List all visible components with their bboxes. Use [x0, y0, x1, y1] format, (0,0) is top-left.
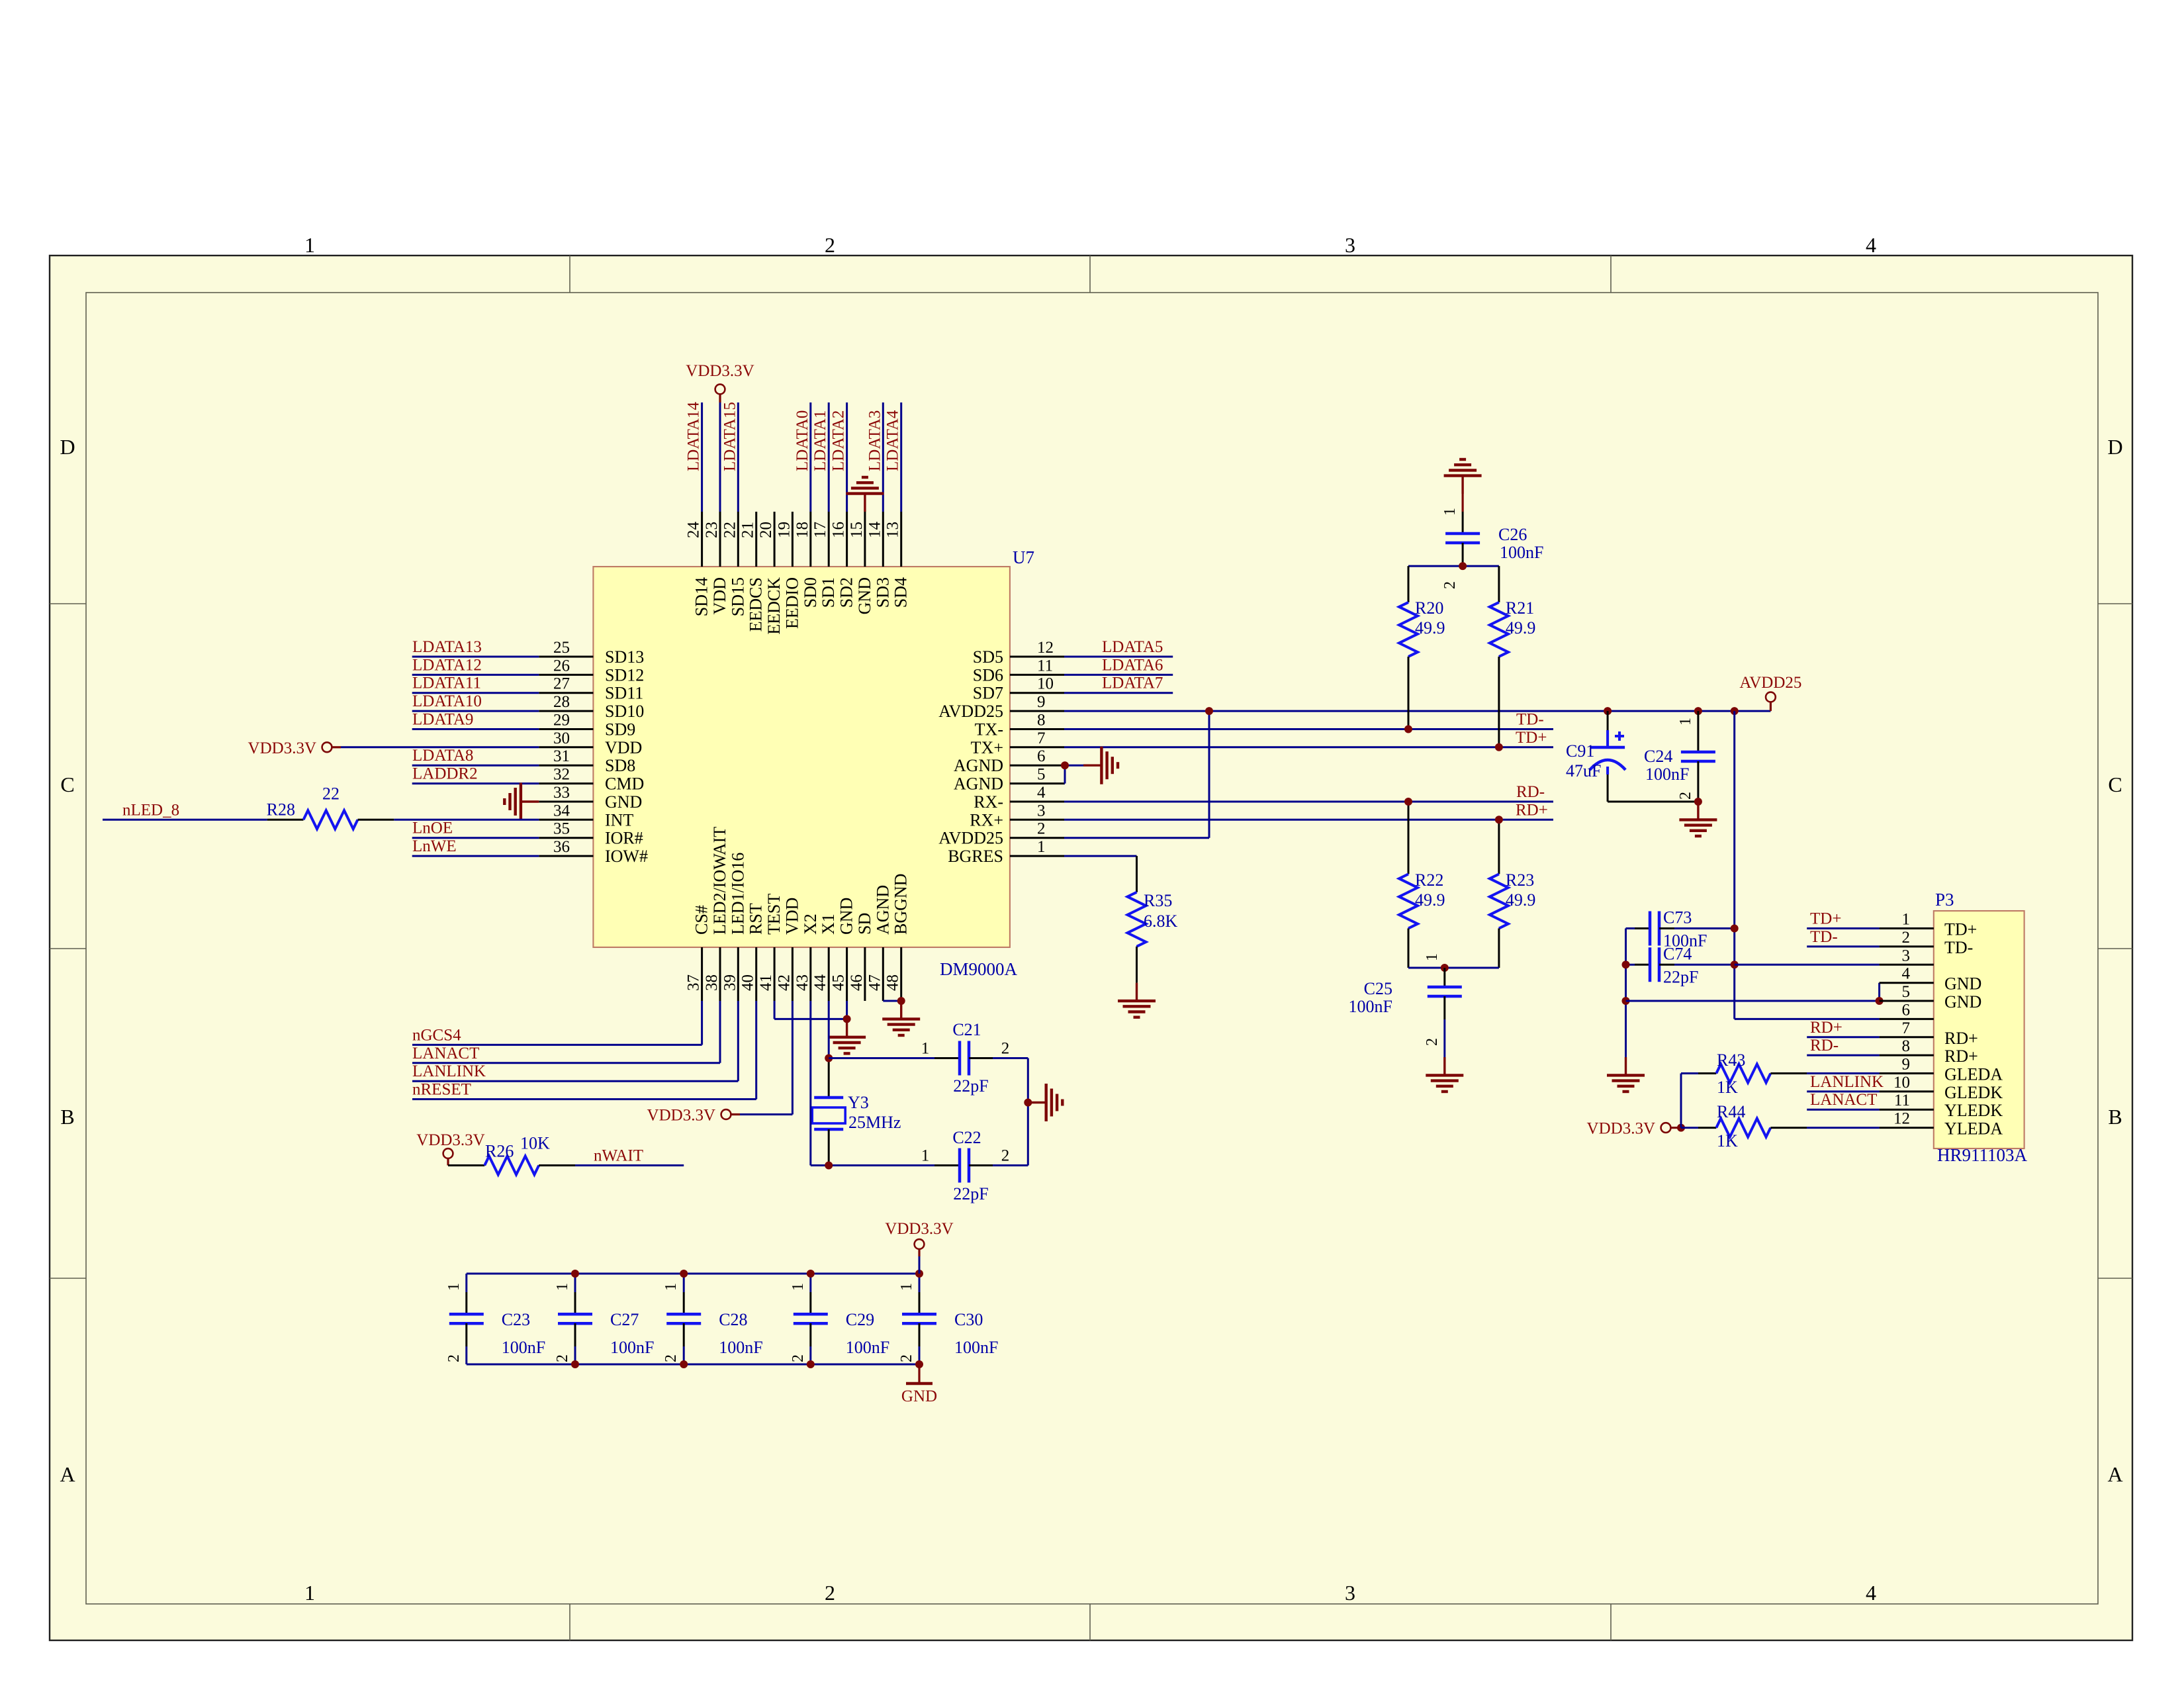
svg-text:R20: R20: [1415, 598, 1443, 618]
net label RD+: [1516, 801, 1548, 819]
power port VDD3.3V at R44: [1587, 1120, 1681, 1138]
P3 pins 1-12: [1880, 911, 2003, 1139]
svg-text:5: 5: [1037, 766, 1046, 784]
svg-text:RD-: RD-: [1516, 783, 1545, 801]
svg-text:100nF: 100nF: [846, 1338, 889, 1357]
svg-text:27: 27: [553, 675, 570, 693]
junction X1/C21: [825, 1055, 833, 1062]
pin number 1 of C30: [898, 1283, 915, 1291]
junction C26 rail: [1459, 562, 1467, 570]
U7 right pins 12-1: [938, 639, 1064, 866]
ground right of C21/C22: [1028, 1084, 1062, 1121]
junction ground tap: [1024, 1099, 1032, 1107]
svg-text:1: 1: [304, 233, 315, 257]
wire LANLINK: [412, 1001, 738, 1081]
svg-text:1: 1: [790, 1283, 807, 1291]
power port VDD3.3V at pin 30: [248, 739, 341, 757]
designator R43: [1717, 1051, 1745, 1070]
designator R35: [1144, 891, 1172, 910]
svg-text:LDATA1: LDATA1: [811, 410, 829, 471]
ground at pin 45: [828, 1019, 866, 1053]
junction pin45 tie: [843, 1015, 851, 1023]
designator R22: [1415, 870, 1443, 890]
svg-text:LDATA0: LDATA0: [794, 410, 811, 471]
wire LnWE: [412, 855, 539, 857]
svg-text:2: 2: [898, 1354, 915, 1362]
svg-text:C28: C28: [719, 1310, 747, 1329]
svg-text:23: 23: [703, 522, 721, 538]
crystal Y3: [812, 1098, 845, 1166]
svg-text:LED2/IOWAIT: LED2/IOWAIT: [710, 827, 729, 935]
wire C21/C22 right vertical: [1027, 1058, 1029, 1166]
designator C24: [1644, 747, 1672, 766]
ground below C73/C74: [1607, 1057, 1645, 1092]
wire RD- (P3): [1807, 1055, 1879, 1056]
svg-text:32: 32: [553, 766, 570, 784]
svg-text:34: 34: [553, 802, 570, 820]
svg-text:24: 24: [685, 522, 703, 539]
net label LDATA12: [412, 656, 482, 674]
svg-text:100nF: 100nF: [610, 1338, 654, 1357]
pin number 2 of C29: [790, 1354, 807, 1362]
capacitor C30: [902, 1274, 936, 1364]
svg-text:21: 21: [739, 522, 757, 538]
svg-text:11: 11: [1037, 657, 1053, 675]
net label LnWE: [412, 837, 457, 855]
pin number 1 of C27: [554, 1283, 571, 1291]
svg-text:B: B: [60, 1105, 74, 1129]
svg-text:R35: R35: [1144, 891, 1172, 910]
resistor R21: [1490, 566, 1508, 747]
svg-text:C: C: [60, 773, 74, 796]
value 100nF (C73): [1663, 931, 1707, 951]
svg-text:RD+: RD+: [1810, 1019, 1843, 1037]
svg-text:100nF: 100nF: [719, 1338, 762, 1357]
svg-text:DM9000A: DM9000A: [940, 959, 1018, 979]
net label LDATA3: [866, 410, 884, 471]
svg-text:SD9: SD9: [605, 720, 635, 739]
power port VDD3.3V at pin 23: [686, 362, 754, 402]
svg-text:17: 17: [811, 522, 829, 538]
ground below C24: [1679, 802, 1717, 836]
svg-text:LDATA13: LDATA13: [412, 638, 482, 656]
junction C74 left: [1622, 961, 1630, 968]
svg-text:VDD: VDD: [710, 577, 729, 614]
svg-text:C30: C30: [954, 1310, 983, 1329]
svg-text:4: 4: [1902, 965, 1911, 983]
value 49.9 (R20): [1415, 618, 1445, 637]
net label TD+: [1516, 729, 1547, 747]
svg-text:4: 4: [1866, 233, 1876, 257]
ground at pins 47/48: [882, 1001, 920, 1035]
junction pin48: [897, 997, 905, 1005]
junction C24/AVDD25: [1694, 707, 1702, 715]
net label LDATA5: [1102, 638, 1163, 656]
capacitor C73: [1626, 912, 1735, 946]
junction C29 bottom: [807, 1360, 815, 1368]
wire RD-: [1064, 801, 1553, 803]
wire AGND/BGGND tie: [883, 1000, 901, 1002]
svg-text:nRESET: nRESET: [412, 1081, 471, 1099]
capacitor C29: [794, 1274, 828, 1364]
svg-text:8: 8: [1037, 712, 1046, 729]
power port GND at decoupling bank: [901, 1364, 937, 1405]
wire TD+ (P3): [1807, 927, 1879, 929]
svg-text:11: 11: [1894, 1092, 1910, 1109]
designator C29: [846, 1310, 874, 1329]
svg-text:35: 35: [553, 820, 570, 838]
wire LDATA14 (top): [701, 402, 703, 512]
svg-text:U7: U7: [1013, 547, 1034, 567]
svg-text:7: 7: [1037, 729, 1046, 747]
wire LDATA0 (top): [809, 402, 811, 512]
svg-text:C24: C24: [1644, 747, 1672, 766]
svg-text:1: 1: [1441, 508, 1459, 516]
pin number 2 of C26: [1441, 581, 1459, 589]
svg-text:1: 1: [1677, 718, 1694, 726]
designator C73: [1663, 908, 1692, 927]
svg-text:2: 2: [662, 1354, 680, 1362]
svg-text:LDATA9: LDATA9: [412, 711, 473, 729]
svg-text:C29: C29: [846, 1310, 874, 1329]
pin number 2 of C27: [554, 1354, 571, 1362]
svg-text:1: 1: [554, 1283, 571, 1291]
svg-text:RX-: RX-: [974, 792, 1003, 812]
pin number 2 of C23: [445, 1354, 463, 1362]
svg-text:LDATA10: LDATA10: [412, 692, 482, 710]
value 100nF (C29): [846, 1338, 889, 1357]
svg-text:43: 43: [794, 974, 811, 991]
svg-text:47: 47: [866, 974, 884, 991]
net label nWAIT: [594, 1147, 643, 1165]
wire C91 to C24 bottom: [1608, 801, 1698, 803]
value 49.9 (R22): [1415, 890, 1445, 910]
wire P3 pin3 feed: [1735, 964, 1880, 966]
svg-text:2: 2: [1677, 792, 1694, 800]
pin number 2 of C21: [1001, 1040, 1010, 1058]
svg-text:22: 22: [322, 784, 340, 803]
svg-text:2: 2: [445, 1354, 463, 1362]
svg-text:TD+: TD+: [1810, 910, 1841, 928]
value 22: [322, 784, 340, 803]
svg-text:2: 2: [554, 1354, 571, 1362]
svg-text:RD-: RD-: [1810, 1037, 1839, 1055]
resistor R28: [267, 810, 394, 829]
designator C30: [954, 1310, 983, 1329]
svg-text:B: B: [2108, 1105, 2122, 1129]
wire nWAIT: [575, 1164, 684, 1166]
pin number 2 of C25: [1424, 1038, 1441, 1046]
svg-text:C23: C23: [502, 1310, 530, 1329]
svg-text:6: 6: [1902, 1001, 1911, 1019]
svg-text:100nF: 100nF: [1349, 997, 1392, 1016]
power port VDD3.3V at R26: [416, 1131, 484, 1166]
svg-text:4: 4: [1037, 784, 1046, 802]
svg-text:R43: R43: [1717, 1051, 1745, 1070]
svg-text:R26: R26: [485, 1142, 514, 1161]
wire R28 to INT pin 34: [394, 819, 539, 821]
part number DM9000A: [940, 959, 1018, 979]
svg-text:P3: P3: [1935, 890, 1954, 910]
wire decoupling bottom rail: [467, 1364, 919, 1366]
svg-text:46: 46: [848, 974, 866, 991]
value 1K (R43): [1717, 1078, 1738, 1097]
svg-text:100nF: 100nF: [1645, 765, 1689, 784]
svg-text:LDATA3: LDATA3: [866, 410, 884, 471]
svg-text:2: 2: [1001, 1147, 1010, 1165]
svg-text:2: 2: [825, 233, 835, 257]
designator R20: [1415, 598, 1443, 618]
designator R44: [1717, 1102, 1745, 1121]
net label RD- (P3): [1810, 1037, 1839, 1055]
svg-text:AGND: AGND: [954, 756, 1003, 775]
svg-text:GND: GND: [1944, 974, 1981, 994]
value 49.9 (R21): [1506, 618, 1536, 637]
wire VDD3.3V to pin 42: [740, 1001, 792, 1115]
svg-text:1: 1: [921, 1147, 930, 1165]
pin number 1 of C26: [1441, 508, 1459, 516]
svg-text:LADDR2: LADDR2: [412, 765, 478, 783]
svg-text:AGND: AGND: [873, 885, 892, 935]
ground above C26: [1444, 459, 1482, 494]
svg-text:26: 26: [553, 657, 570, 675]
pin number 2 of C24: [1677, 792, 1694, 800]
svg-text:SD2: SD2: [837, 577, 856, 608]
svg-text:IOW#: IOW#: [605, 847, 648, 866]
svg-text:LnWE: LnWE: [412, 837, 457, 855]
svg-text:12: 12: [1037, 639, 1054, 657]
designator R21: [1506, 598, 1534, 618]
svg-text:2: 2: [1424, 1038, 1441, 1046]
svg-text:3: 3: [1345, 1581, 1355, 1605]
svg-text:TX+: TX+: [971, 738, 1003, 757]
wire nLED_8: [103, 819, 267, 821]
svg-text:nLED_8: nLED_8: [122, 801, 179, 819]
svg-text:9: 9: [1037, 693, 1046, 711]
wire P3 GND row: [1626, 1000, 1880, 1002]
svg-text:IOR#: IOR#: [605, 829, 643, 848]
svg-text:SD4: SD4: [891, 577, 911, 608]
svg-text:1: 1: [1424, 953, 1441, 961]
svg-text:10: 10: [1037, 675, 1054, 693]
junction C29 top: [807, 1270, 815, 1278]
resistor R44: [1681, 1119, 1880, 1137]
svg-text:25MHz: 25MHz: [848, 1113, 901, 1132]
wire AVDD25 net: [1064, 711, 1770, 838]
svg-text:YLEDK: YLEDK: [1944, 1101, 2003, 1120]
value 6.8K: [1144, 912, 1178, 931]
value 47uF: [1566, 761, 1601, 780]
capacitor C27: [558, 1274, 592, 1364]
net label TD-: [1516, 711, 1544, 729]
wire LANLINK (P3): [1807, 1090, 1879, 1092]
wire LDATA4 (top): [900, 402, 902, 512]
svg-text:6: 6: [1037, 747, 1046, 765]
svg-text:3: 3: [1345, 233, 1355, 257]
svg-text:22: 22: [721, 522, 739, 538]
svg-text:LDATA12: LDATA12: [412, 656, 482, 674]
svg-text:C26: C26: [1498, 525, 1527, 544]
ground at pin 33: [504, 783, 539, 821]
svg-text:22pF: 22pF: [953, 1076, 988, 1096]
svg-text:GND: GND: [1944, 992, 1981, 1011]
wire P3 pin4 jog: [1878, 983, 1880, 1001]
net label nGCS4: [412, 1026, 461, 1044]
designator C74: [1663, 944, 1692, 963]
svg-text:LANLINK: LANLINK: [1810, 1073, 1884, 1091]
capacitor C91 polarized: [1590, 711, 1625, 802]
svg-text:GND: GND: [837, 898, 856, 935]
svg-text:C21: C21: [952, 1020, 981, 1039]
designator R28: [267, 800, 295, 819]
net label LDATA10: [412, 692, 482, 710]
junction C30 top: [915, 1270, 923, 1278]
svg-text:R44: R44: [1717, 1102, 1745, 1121]
net label LDATA15: [721, 402, 739, 471]
capacitor C26: [1445, 494, 1480, 566]
svg-text:LnOE: LnOE: [412, 820, 453, 837]
net label TD+ (P3): [1810, 910, 1841, 928]
wire LDATA5: [1064, 656, 1173, 658]
svg-text:VDD3.3V: VDD3.3V: [1587, 1120, 1655, 1138]
designator R23: [1506, 870, 1534, 890]
pin number 1 of C22: [921, 1147, 930, 1165]
net label RD+ (P3): [1810, 1019, 1843, 1037]
wire LDATA8: [412, 765, 539, 767]
svg-text:3: 3: [1037, 802, 1046, 820]
wire TD+: [1064, 746, 1553, 748]
wire AGND pins 5-6: [1064, 765, 1083, 783]
svg-text:C91: C91: [1566, 741, 1594, 761]
junction C25 rail: [1441, 964, 1449, 972]
svg-text:C25: C25: [1364, 979, 1392, 998]
svg-text:HR911103A: HR911103A: [1937, 1145, 2028, 1165]
resistor R43: [1681, 1064, 1880, 1083]
junction R21/TD+: [1495, 743, 1503, 751]
net label LANACT (P3): [1810, 1091, 1877, 1109]
capacitor C25: [1428, 968, 1462, 1057]
wire TD-: [1064, 728, 1553, 730]
wire LDATA9: [412, 728, 539, 730]
ground below C25: [1426, 1057, 1463, 1092]
svg-text:AVDD25: AVDD25: [1739, 674, 1801, 692]
connector P3 body HR911103A: [1934, 911, 2025, 1149]
svg-text:C: C: [2108, 773, 2122, 796]
svg-text:10K: 10K: [520, 1134, 550, 1153]
wire BGRES: [1064, 855, 1137, 857]
svg-text:10: 10: [1893, 1074, 1910, 1092]
svg-text:13: 13: [884, 522, 902, 538]
junction AVDD25/pin2 riser: [1205, 707, 1213, 715]
junction C73 right: [1731, 925, 1739, 933]
pin number 1 of C28: [662, 1283, 680, 1291]
svg-text:22pF: 22pF: [1663, 967, 1698, 986]
svg-text:1: 1: [662, 1283, 680, 1291]
svg-text:1: 1: [898, 1283, 915, 1291]
wire LDATA1 (top): [828, 402, 830, 512]
designator C21: [952, 1020, 981, 1039]
value 1K (R44): [1717, 1131, 1738, 1150]
svg-text:LDATA6: LDATA6: [1102, 656, 1163, 674]
svg-text:2: 2: [1902, 929, 1911, 947]
value 10K: [520, 1134, 550, 1153]
U7 top pins 24-13: [685, 512, 911, 635]
wire RD+ (P3): [1807, 1036, 1879, 1038]
value 100nF (C23): [502, 1338, 545, 1357]
power port AVDD25: [1739, 674, 1801, 711]
svg-text:A: A: [60, 1462, 75, 1486]
wire LADDR2: [412, 782, 539, 784]
svg-text:12: 12: [1893, 1110, 1910, 1128]
svg-text:29: 29: [553, 712, 570, 729]
svg-text:VDD3.3V: VDD3.3V: [248, 739, 316, 757]
wire R43 branch vertical: [1680, 1074, 1682, 1128]
designator C22: [952, 1128, 981, 1147]
svg-text:LANACT: LANACT: [1810, 1091, 1877, 1109]
value 25MHz: [848, 1113, 901, 1132]
svg-text:SD3: SD3: [873, 577, 892, 608]
wire rail R22 R23 bottoms: [1408, 967, 1499, 969]
svg-text:2: 2: [1441, 581, 1459, 589]
svg-text:VDD3.3V: VDD3.3V: [885, 1220, 953, 1238]
svg-text:R28: R28: [267, 800, 295, 819]
junction VDD3.3V/R43 branch: [1677, 1124, 1685, 1132]
net label LDATA4: [884, 410, 902, 471]
resistor R22: [1399, 802, 1418, 968]
value 100nF (C25): [1349, 997, 1392, 1016]
svg-text:GND: GND: [855, 577, 874, 614]
svg-text:SD6: SD6: [973, 665, 1003, 684]
svg-text:GLEDK: GLEDK: [1944, 1083, 2003, 1102]
svg-text:VDD3.3V: VDD3.3V: [647, 1107, 715, 1125]
wire TEST to GND tie: [774, 1001, 847, 1019]
svg-text:100nF: 100nF: [502, 1338, 545, 1357]
svg-text:1K: 1K: [1717, 1131, 1738, 1150]
wire LDATA15 (top): [737, 402, 739, 512]
svg-text:42: 42: [775, 974, 793, 991]
value 22pF (C74): [1663, 967, 1698, 986]
resistor R20: [1399, 566, 1418, 729]
svg-text:41: 41: [757, 974, 775, 991]
value 100nF (C24): [1645, 765, 1689, 784]
svg-text:1: 1: [304, 1581, 315, 1605]
svg-text:SD7: SD7: [973, 684, 1003, 703]
svg-text:LANLINK: LANLINK: [412, 1062, 486, 1080]
power port VDD3.3V at decoupling bank: [885, 1220, 953, 1274]
svg-text:CS#: CS#: [692, 905, 711, 935]
resistor R23: [1490, 820, 1508, 968]
svg-text:LED1/IO16: LED1/IO16: [728, 853, 747, 935]
svg-text:38: 38: [703, 974, 721, 991]
capacitor C74: [1626, 947, 1735, 982]
svg-text:7: 7: [1902, 1019, 1911, 1037]
svg-text:49.9: 49.9: [1415, 890, 1445, 910]
svg-text:1: 1: [1902, 911, 1911, 929]
wire LDATA11: [412, 692, 539, 694]
svg-text:RST: RST: [747, 903, 766, 935]
svg-text:C74: C74: [1663, 944, 1692, 963]
svg-text:18: 18: [794, 522, 811, 538]
svg-text:Y3: Y3: [848, 1093, 869, 1112]
svg-text:AGND: AGND: [954, 774, 1003, 794]
svg-text:R22: R22: [1415, 870, 1443, 890]
designator R26: [485, 1142, 514, 1161]
svg-text:LDATA15: LDATA15: [721, 402, 739, 471]
svg-text:LDATA11: LDATA11: [412, 675, 481, 692]
U7 left pins 25-36: [539, 639, 648, 866]
ground at pin 15: [846, 477, 884, 512]
svg-text:2: 2: [790, 1354, 807, 1362]
